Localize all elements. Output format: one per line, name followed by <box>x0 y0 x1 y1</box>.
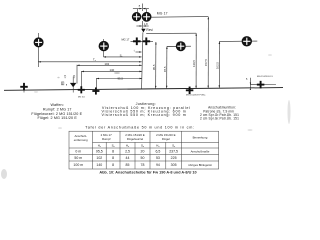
svg-text:305: 305 <box>171 163 177 167</box>
svg-text:MG 151/20 E Fl.: MG 151/20 E Fl. <box>257 76 273 78</box>
svg-text:2 cm Spr.Gr.Patr.Üb. 151: 2 cm Spr.Gr.Patr.Üb. 151 <box>200 116 239 120</box>
svg-text:139,5: 139,5 <box>192 60 196 67</box>
svg-text:8: 8 <box>112 156 114 160</box>
baseline (ground line of target board) <box>4 88 283 91</box>
svg-text:0 m: 0 m <box>75 149 81 153</box>
guide at cross B' <box>81 71 83 90</box>
svg-text:78: 78 <box>141 163 145 167</box>
wire: line through circle F <box>219 40 257 42</box>
svg-text:95,5: 95,5 <box>118 76 124 80</box>
tick above circle D <box>146 9 148 13</box>
svg-text:6,5: 6,5 <box>155 149 160 153</box>
dimension Ta from A axis <box>38 61 141 63</box>
table data rows <box>73 149 211 167</box>
dimension from x77 <box>77 64 142 66</box>
svg-text:87,5: 87,5 <box>163 66 167 72</box>
vertical dimension V5 <box>166 47 168 89</box>
wire: MG17 muzzle height line <box>151 16 208 19</box>
table grid <box>69 131 219 169</box>
arrows of V1 <box>195 33 197 36</box>
tiny labels of diagram <box>61 3 273 98</box>
svg-text:50 m: 50 m <box>74 156 82 160</box>
middle text block column 1: Waffen <box>31 103 82 120</box>
lower datum triangle <box>70 83 77 87</box>
arrows of V3 <box>219 42 221 45</box>
dimension t small <box>136 51 142 53</box>
svg-text:Flügelwurzel: Flügelwurzel <box>127 137 144 141</box>
svg-text:94: 94 <box>156 163 160 167</box>
arrows of Sa dim <box>104 56 107 58</box>
arrows of V5 <box>166 47 168 50</box>
svg-text:Rumpf: Rumpf <box>102 137 111 141</box>
svg-text:100 m: 100 m <box>73 163 83 167</box>
svg-text:95,5: 95,5 <box>152 64 156 70</box>
table sub-column dividers <box>105 142 107 168</box>
target circle A (MG151 Fl.Wu. muzzle left) <box>34 37 44 47</box>
table outer frame <box>69 131 219 169</box>
impact cross MG17 left <box>133 37 141 45</box>
middle text block column 3: Anschussmunition <box>200 106 239 121</box>
vertical dimension V3 (MG151 Fl height) <box>218 42 220 88</box>
vertical dimension V4 <box>155 42 157 88</box>
middle text block column 2: Justierung <box>101 102 190 117</box>
impact cross D' (MG151 Fl) <box>257 81 265 89</box>
vertical dimension V2 (MG17 height) <box>207 17 209 88</box>
dimension a (MG17 spacing) <box>133 8 142 10</box>
svg-text:Abb. 10: Anschußscheibe für Fw: Abb. 10: Anschußscheibe für Fw 190 A-8 u… <box>99 170 196 174</box>
svg-text:MG 151/20 E Fl.Wu.: MG 151/20 E Fl.Wu. <box>186 95 206 97</box>
svg-text:Revi: Revi <box>146 28 153 32</box>
svg-text:1,8: 1,8 <box>144 22 148 26</box>
table column borders <box>92 131 94 169</box>
impact cross C' <box>92 87 99 94</box>
svg-text:MG 151: MG 151 <box>78 97 85 99</box>
svg-text:20: 20 <box>141 149 145 153</box>
arrows of mini dim right <box>250 83 251 85</box>
arrows of dim x77 <box>77 65 80 67</box>
arrows of V4 <box>155 42 157 45</box>
arrows of dimension a <box>139 8 141 10</box>
tiny box label left of triangle <box>61 82 64 85</box>
svg-text:2,5: 2,5 <box>125 149 130 153</box>
svg-text:50: 50 <box>141 156 145 160</box>
target circle D (MG17 muzzle right) <box>142 12 152 22</box>
svg-text:95,5: 95,5 <box>96 149 103 153</box>
svg-text:Flügel: 2 MG 151/20 E: Flügel: 2 MG 151/20 E <box>37 116 77 120</box>
svg-text:102,5: 102,5 <box>215 62 219 69</box>
svg-text:157,5: 157,5 <box>204 59 208 66</box>
svg-text:MG 17: MG 17 <box>122 37 130 41</box>
arrows of Ta dim <box>38 61 41 63</box>
impact cross G' (MG151 Fl.Wu.) <box>186 87 194 95</box>
Revi axis to baseline <box>142 32 143 88</box>
target circle F (MG151 Fl muzzle) <box>242 36 252 46</box>
guide at cross A' <box>23 83 25 93</box>
svg-text:Tafel der Anschußmaße 50 m und: Tafel der Anschußmaße 50 m und 100 m in … <box>85 126 195 130</box>
dimension Sa from B axis <box>104 56 142 58</box>
tick above circle C <box>136 9 138 13</box>
svg-text:140: 140 <box>110 68 115 72</box>
wire: Revi sight line <box>146 32 196 34</box>
svg-text:140: 140 <box>96 163 102 167</box>
svg-text:Anschußmaße: Anschußmaße <box>191 149 210 153</box>
svg-text:225: 225 <box>171 156 177 160</box>
svg-text:44: 44 <box>126 156 130 160</box>
svg-text:8: 8 <box>112 163 114 167</box>
target circle B (MG151 Fl.Wu. muzzle) <box>99 41 109 51</box>
svg-text:entfernung: entfernung <box>74 138 88 142</box>
arrows of Revi offset dim <box>140 25 142 27</box>
target circle E (MG151 muzzle) <box>176 41 186 51</box>
impact cross B' (wing root left) <box>78 86 85 93</box>
svg-text:MG 17: MG 17 <box>157 12 168 16</box>
table row borders <box>93 141 219 143</box>
arrowheads <box>38 8 251 90</box>
scan noise <box>1 54 291 179</box>
target circle C (MG17 muzzle left) <box>132 12 142 22</box>
vertical axis of circle A <box>37 33 39 67</box>
svg-text:53: 53 <box>156 156 160 160</box>
tick near box label <box>65 84 67 86</box>
wire: line through cross MG151 Fl <box>250 84 276 86</box>
dimension from x96.5 <box>97 78 143 80</box>
svg-text:237,5: 237,5 <box>169 149 178 153</box>
dimension from x81.5 <box>82 70 142 72</box>
table header texts <box>74 133 208 148</box>
arrows of V2 <box>208 17 210 20</box>
vertical axis of circle B <box>103 39 105 57</box>
guide at cross C' <box>95 78 97 91</box>
svg-text:Flügel: Flügel <box>162 137 170 141</box>
vertical dimension V1 (Revi height) <box>195 33 197 88</box>
triangle datum axis <box>72 77 74 93</box>
impact cross A' (outer wing left) <box>20 83 28 91</box>
mini dimension at MG151 Fl <box>249 78 251 88</box>
impact cross MG17 right <box>142 37 150 45</box>
Revi centerline top tick <box>141 4 143 12</box>
svg-text:übriges Blinkgerät: übriges Blinkgerät <box>188 163 211 167</box>
svg-text:85: 85 <box>126 163 130 167</box>
wire: MG17 impact line <box>131 40 154 42</box>
guide above lower triangle <box>76 65 78 84</box>
dimension Revi offset <box>136 25 142 27</box>
svg-text:102: 102 <box>96 156 102 160</box>
svg-text:Bemerkung: Bemerkung <box>193 136 208 140</box>
svg-text:Visierschuß 550 m; Kreuzung: 9: Visierschuß 550 m; Kreuzung: 900 m <box>101 113 186 117</box>
arrows of dim x81.5 <box>82 71 85 73</box>
Revi triangle <box>141 29 145 33</box>
arrows of dim x96.5 <box>97 78 100 80</box>
wire: line through circle E <box>167 45 191 47</box>
svg-text:8: 8 <box>112 149 114 153</box>
svg-text:102: 102 <box>105 62 110 66</box>
arrows of t dim <box>139 51 141 53</box>
Revi centerline mid <box>142 21 144 29</box>
